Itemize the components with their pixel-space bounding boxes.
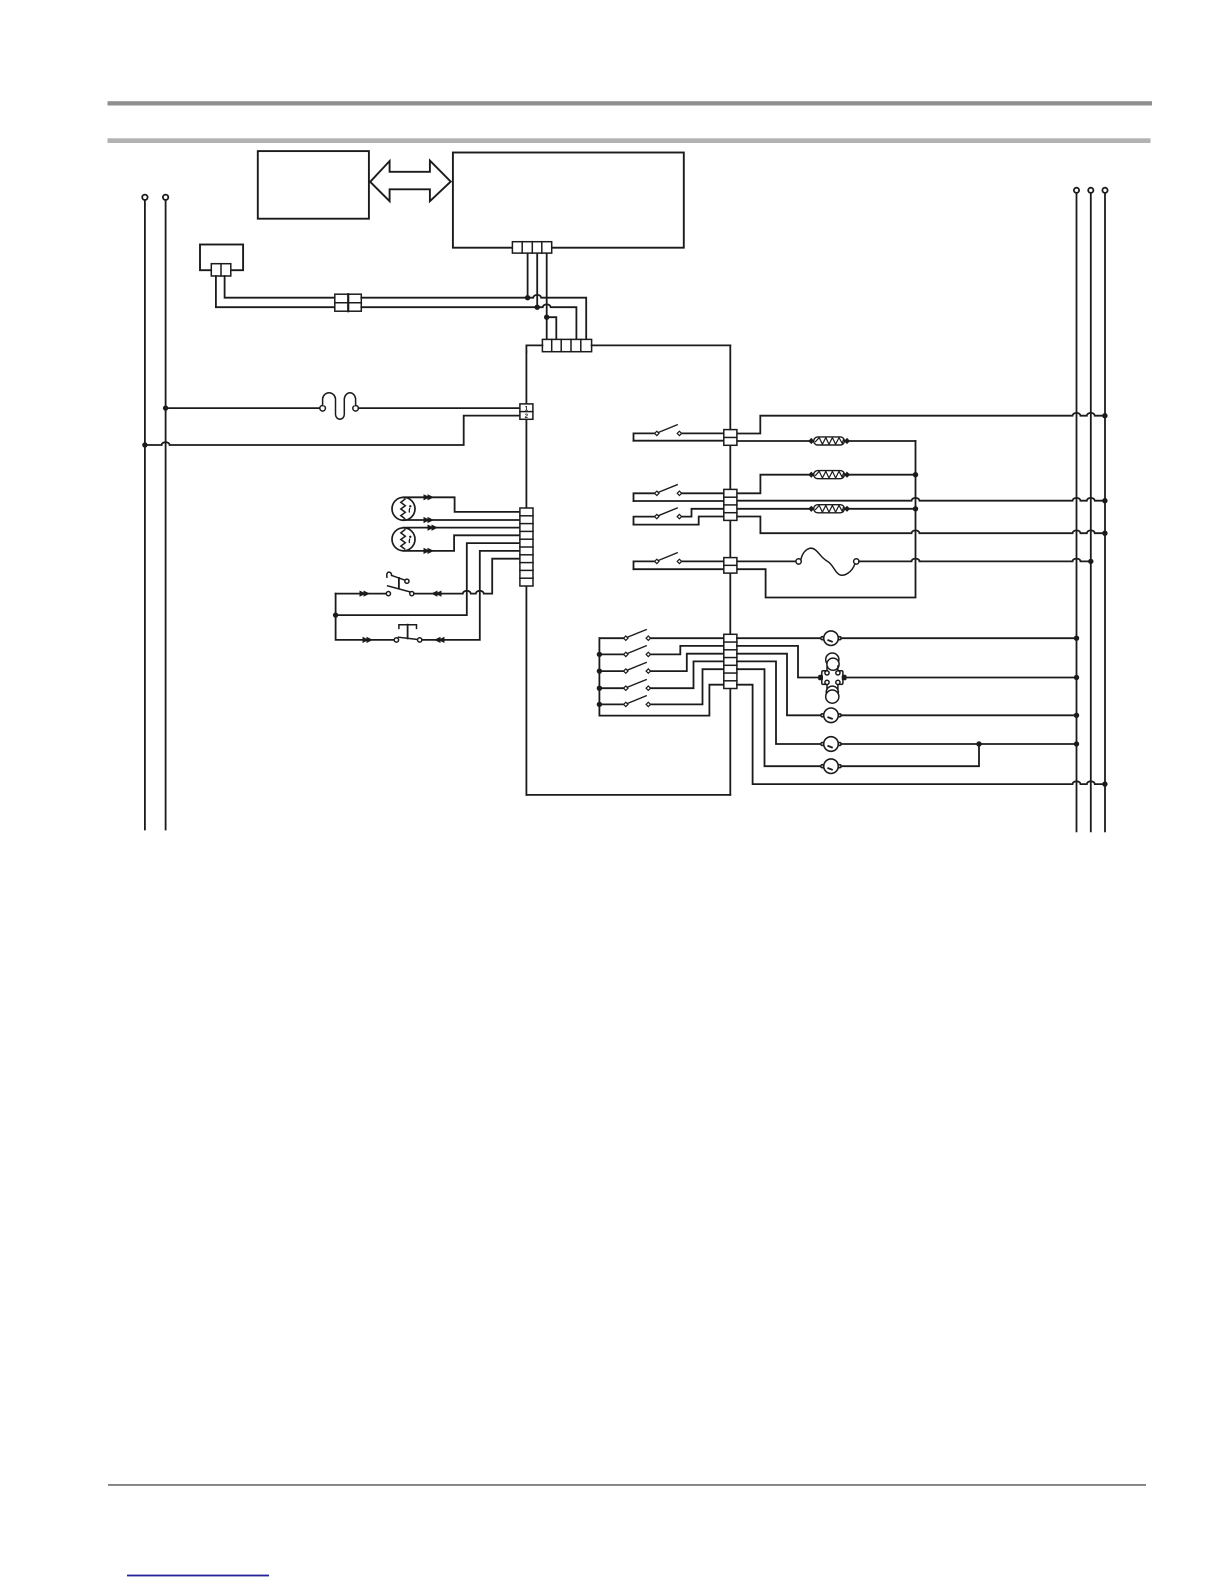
wire G1 bottom to ladder cell2 (404, 519, 520, 521)
junction gang bus SW5 (597, 702, 602, 707)
wire S2 to ladder cell6 (422, 551, 520, 640)
heater element H1 (809, 437, 849, 445)
sender G2 (gauge sender bulb) (392, 528, 415, 551)
common heater return wire (737, 441, 916, 598)
junction node C (544, 315, 549, 320)
wire S1 to ladder cell7 (hops over risers) (414, 559, 520, 594)
junction bus R2 / thermal wire (1088, 559, 1093, 564)
central box bottom edge (526, 794, 730, 796)
wire heater H3 to common return (junction) (849, 508, 915, 510)
switch SW-D (row4) (634, 561, 656, 569)
fusible link FL1 (320, 393, 359, 420)
wire CD cell4 to lamp LP4 (737, 661, 821, 744)
header rule top (108, 101, 1153, 105)
svg-text:1: 1 (525, 405, 529, 412)
connector CC (2-cell on bus) (724, 558, 737, 574)
wire CD cell5 to lamp LP5 (737, 669, 821, 766)
footer link underline (127, 1575, 269, 1577)
junction bus R3 / box B cell2 wire (1102, 498, 1107, 503)
arrow left on S2 wire (434, 637, 441, 643)
power bus R3 (1102, 188, 1107, 193)
header rule bottom (108, 138, 1151, 143)
heater element H3 (809, 505, 849, 513)
switch SW-C (row3) (634, 517, 656, 525)
arrow right on G2 top wire (428, 525, 435, 531)
wire lamp LP1 to bus R1 (841, 637, 1076, 639)
lamp LP5 (821, 759, 841, 774)
switch SW4 (599, 687, 625, 689)
junction gang bus SW2 (597, 652, 602, 657)
junction gang bus SW4 (597, 686, 602, 691)
switch SW-A (row1) (634, 433, 656, 440)
junction node D (333, 612, 338, 617)
junction node B (535, 305, 540, 310)
central box left edge (525, 352, 527, 795)
junction bus R1 / lamp LP4 (1074, 741, 1079, 746)
connector CA (2-cell on bus) (724, 430, 737, 446)
central box top stubs (526, 345, 730, 351)
lamp LP1 (821, 631, 841, 646)
wire CD cell1 to lamp LP1 (737, 637, 821, 639)
left feed bus L2 (163, 195, 168, 200)
connector U2 (5-cell strip on central box top) (542, 339, 591, 351)
switch SW1 (599, 637, 625, 639)
box M1 (left control unit) (258, 151, 369, 219)
arrow right on S1 feed (360, 591, 367, 597)
wire CD cell3 to lamp LP3 (737, 654, 821, 716)
wire box B cell1 to heater H2 (737, 475, 809, 494)
wire G2 top to ladder cell3 (404, 527, 520, 529)
wire node D down to S2 feed (336, 615, 395, 640)
wire box B cell3 to heater H3 (737, 508, 809, 510)
connector C1 (2-cell on box M3) (211, 264, 231, 276)
footer rule (108, 1484, 1146, 1486)
wire box B cell4 to bus R3 (hops return R1 R2) (737, 517, 1105, 534)
wire node D to ladder cell5 (336, 543, 520, 615)
arrow right on G1 bottom wire (424, 517, 431, 523)
thermal protector TP1 (796, 548, 859, 575)
wire node B to strip cell4 (hop over wire C) (537, 304, 576, 339)
switch SW3 (599, 670, 625, 672)
wire box A top cell to bus R3 (hops R1 R2) (737, 413, 1105, 434)
wire from connector U1 pin3 down (536, 253, 538, 307)
wire lower run to node B (361, 306, 537, 308)
wire SW-B bottom bar (634, 500, 724, 502)
wire S1 branch down to node D (335, 594, 337, 616)
switch S2 (push button) (394, 625, 422, 642)
connector U1 (4-cell on box M2 bottom) (512, 242, 551, 253)
arrow right on S2 feed (363, 637, 370, 643)
junction gang bus SW3 (597, 668, 602, 673)
wire from connector U1 pin4 down (546, 253, 548, 339)
wire S1 feed left (336, 593, 386, 595)
fusible link FL1 feed wire (166, 407, 320, 409)
wire heater H1 to common return (849, 440, 915, 442)
junction bus R3 / ground return (1102, 781, 1107, 786)
wire box B cell2 to bus R3 (hops return R1 R2) (737, 498, 1105, 501)
heater element H2 (809, 471, 849, 479)
lamp LP3 (821, 708, 841, 723)
wire box A bottom cell to heater H1 (737, 440, 809, 442)
arrow left on S1 wire (431, 591, 438, 597)
junction bus R3 / box A wire (1102, 413, 1107, 418)
wire M3 pin2 to upper run (225, 276, 335, 298)
wire FL1 to connector C3 pin1 (358, 407, 520, 409)
lamp cluster LC1 (818, 653, 846, 703)
wire lamp LP3 to bus R1 (841, 714, 1076, 716)
wire G2 bottom to ladder cell4 (404, 535, 520, 551)
connector C2 (2x2 inline) (335, 294, 362, 311)
switch SW-B (row2) (634, 493, 656, 501)
svg-text:2: 2 (525, 413, 529, 420)
junction bus R1 / lamp LP1 (1074, 636, 1079, 641)
wire box C cell1 to thermal protector TP1 (737, 560, 796, 562)
wire SW-A bottom bar (634, 440, 724, 442)
junction bus L2 / fuse feed (163, 405, 168, 410)
junction node A (525, 295, 530, 300)
junction node E (LP4/LP5) (976, 741, 981, 746)
wire CD cell7 to bus R3 (hops R1 R2) (737, 685, 1105, 784)
power bus R2 (1088, 188, 1093, 193)
power bus R1 (1074, 188, 1079, 193)
wire bus L1 to connector C3 pin2 (hop over bus L2) (145, 416, 520, 445)
arrow right on G2 bottom wire (424, 548, 431, 554)
switch SW5 (599, 703, 625, 705)
wire G1 top to ladder cell1 (404, 497, 520, 512)
wire lamp LP4 to bus R1 (node E) (841, 743, 1076, 745)
switch SW2 (599, 653, 625, 655)
5-gang switch bus (599, 638, 723, 715)
wire node C branch to strip cell2 (547, 317, 557, 339)
wire lamp LP5 up to node E (841, 744, 979, 766)
junction heater H2 return (913, 472, 918, 477)
connector CD (7-cell on bus) (724, 634, 737, 688)
wire SW-D bottom bar (634, 568, 724, 570)
wire from connector U1 pin2 down (527, 253, 529, 298)
connector C3 (1/2 inline) (520, 404, 533, 419)
box M3 (small sensor box) (200, 245, 243, 271)
switch S1 (key switch) (386, 572, 414, 596)
sender G1 (gauge sender bulb) (392, 497, 415, 520)
connector CB (4-cell on bus) (724, 489, 737, 520)
junction bus R3 / box B cell4 wire (1102, 531, 1107, 536)
bidirectional bus arrow (370, 161, 451, 202)
wire M3 pin1 to lower run (216, 276, 335, 307)
wire TP1 to bus R2 (hops return R1) (859, 559, 1091, 562)
junction bus R1 / lamp LP3 (1074, 713, 1079, 718)
wire SW-C bottom bar to box B cell4 (634, 517, 724, 525)
connector U3 (10-cell ladder) (520, 508, 533, 586)
left feed bus L1 (142, 195, 147, 200)
arrow right on G1 top wire (424, 494, 431, 500)
wire heater H2 to common return (junction) (849, 474, 915, 476)
wire upper run to node A (361, 297, 527, 299)
junction bus R1 / cluster LC1 (1074, 675, 1079, 680)
lamp LP4 (821, 737, 841, 752)
wire node A to strip cell5 (hop over wire B) (528, 295, 587, 339)
junction bus L1 / pin2 feed (142, 442, 147, 447)
central box right edge (729, 345, 731, 795)
wire CD cell2 to lamp cluster LC1 (737, 646, 818, 678)
box M2 (main module) (453, 153, 684, 248)
wire cluster LC1 to bus R1 (847, 677, 1077, 679)
junction heater H3 return (913, 506, 918, 511)
